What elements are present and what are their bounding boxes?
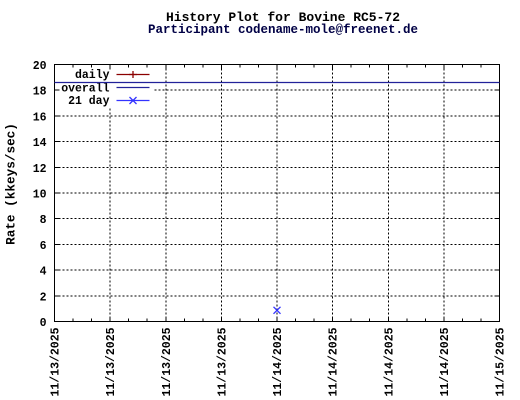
x minor tick bottom 0.2 bbox=[91, 319, 93, 322]
x minor tick bottom 7.2 bbox=[480, 319, 482, 322]
svg-text:daily: daily bbox=[75, 69, 110, 82]
y tick right 6 bbox=[495, 243, 500, 245]
x minor tick top 6.2 bbox=[424, 65, 426, 68]
y tick right 2 bbox=[495, 295, 500, 297]
svg-text:8: 8 bbox=[40, 214, 47, 227]
y tick left 4 bbox=[55, 269, 60, 271]
x major tick top 1 bbox=[109, 65, 111, 70]
x major tick top 3 bbox=[220, 65, 222, 70]
horizontal gridline y=16 bbox=[55, 115, 500, 117]
x minor tick bottom 4.1 bbox=[295, 319, 297, 322]
svg-text:11/14/2025: 11/14/2025 bbox=[383, 327, 396, 396]
legend daily plus marker bbox=[129, 71, 137, 78]
y tick left 12 bbox=[55, 166, 60, 168]
x major tick top 0 bbox=[54, 65, 56, 70]
svg-text:4: 4 bbox=[40, 266, 47, 279]
y tick right 16 bbox=[495, 115, 500, 117]
x minor tick bottom 5.2 bbox=[369, 319, 371, 322]
x minor tick top 5.1 bbox=[350, 65, 352, 68]
y tick right 10 bbox=[495, 192, 500, 194]
x minor tick top 0.2 bbox=[91, 65, 93, 68]
x minor tick top 7.1 bbox=[461, 65, 463, 68]
x minor tick top 6.1 bbox=[406, 65, 408, 68]
x minor tick bottom 3.2 bbox=[257, 319, 259, 322]
x minor tick bottom 4.2 bbox=[313, 319, 315, 322]
svg-text:14: 14 bbox=[33, 137, 47, 150]
horizontal gridline y=12 bbox=[55, 166, 500, 168]
horizontal gridline y=18 bbox=[55, 89, 500, 91]
vertical gridline x tick 1 bbox=[109, 65, 111, 322]
svg-text:21 day: 21 day bbox=[68, 95, 110, 108]
svg-text:Rate (kkeys/sec): Rate (kkeys/sec) bbox=[4, 123, 19, 245]
svg-text:20: 20 bbox=[33, 60, 47, 73]
x minor tick top 3.1 bbox=[239, 65, 241, 68]
legend daily sample line bbox=[117, 74, 150, 76]
x minor tick top 1.1 bbox=[128, 65, 130, 68]
x minor tick bottom 7.1 bbox=[461, 319, 463, 322]
vertical gridline x tick 4 bbox=[276, 65, 278, 322]
y tick left 8 bbox=[55, 218, 60, 220]
y tick right 20 bbox=[495, 64, 500, 66]
horizontal gridline y=6 bbox=[55, 243, 500, 245]
svg-text:16: 16 bbox=[33, 111, 47, 124]
svg-text:0: 0 bbox=[40, 317, 47, 330]
vertical gridline x tick 7 bbox=[443, 65, 445, 322]
x major tick bottom 6 bbox=[387, 317, 389, 322]
svg-text:11/14/2025: 11/14/2025 bbox=[272, 327, 285, 396]
x minor tick top 4.2 bbox=[313, 65, 315, 68]
y tick left 20 bbox=[55, 64, 60, 66]
x minor tick bottom 3.1 bbox=[239, 319, 241, 322]
legend overall sample line bbox=[117, 87, 150, 89]
x major tick top 8 bbox=[499, 65, 501, 70]
x minor tick bottom 1.2 bbox=[146, 319, 148, 322]
y tick right 0 bbox=[495, 321, 500, 323]
svg-text:6: 6 bbox=[40, 240, 47, 253]
y tick right 12 bbox=[495, 166, 500, 168]
y tick right 4 bbox=[495, 269, 500, 271]
vertical gridline x tick 3 bbox=[220, 65, 222, 322]
x major tick bottom 0 bbox=[54, 317, 56, 322]
y tick left 18 bbox=[55, 89, 60, 91]
y tick left 0 bbox=[55, 321, 60, 323]
y tick right 8 bbox=[495, 218, 500, 220]
x minor tick bottom 0.1 bbox=[72, 319, 74, 322]
x major tick bottom 7 bbox=[443, 317, 445, 322]
y tick left 10 bbox=[55, 192, 60, 194]
x major tick bottom 2 bbox=[165, 317, 167, 322]
plot border bbox=[55, 65, 500, 322]
x major tick top 4 bbox=[276, 65, 278, 70]
x minor tick top 7.2 bbox=[480, 65, 482, 68]
x minor tick bottom 6.2 bbox=[424, 319, 426, 322]
x major tick top 5 bbox=[332, 65, 334, 70]
svg-text:10: 10 bbox=[33, 189, 47, 202]
svg-text:2: 2 bbox=[40, 291, 47, 304]
horizontal gridline y=4 bbox=[55, 269, 500, 271]
x major tick bottom 5 bbox=[332, 317, 334, 322]
vertical gridline x tick 2 bbox=[165, 65, 167, 322]
legend 21 day cross marker bbox=[130, 97, 137, 104]
svg-text:18: 18 bbox=[33, 86, 47, 99]
svg-text:11/13/2025: 11/13/2025 bbox=[50, 327, 63, 396]
x major tick bottom 1 bbox=[109, 317, 111, 322]
21 day data point cross bbox=[274, 307, 281, 314]
vertical gridline x tick 5 bbox=[332, 65, 334, 322]
horizontal gridline y=10 bbox=[55, 192, 500, 194]
x major tick top 6 bbox=[387, 65, 389, 70]
x major tick bottom 3 bbox=[220, 317, 222, 322]
x major tick top 2 bbox=[165, 65, 167, 70]
svg-text:11/14/2025: 11/14/2025 bbox=[439, 327, 452, 396]
svg-text:11/14/2025: 11/14/2025 bbox=[328, 327, 341, 396]
x minor tick top 5.2 bbox=[369, 65, 371, 68]
y tick left 2 bbox=[55, 295, 60, 297]
svg-text:Participant codename-mole@free: Participant codename-mole@freenet.de bbox=[148, 23, 418, 37]
x minor tick bottom 6.1 bbox=[406, 319, 408, 322]
svg-text:11/15/2025: 11/15/2025 bbox=[495, 327, 508, 396]
overall series line bbox=[55, 82, 500, 84]
x major tick top 7 bbox=[443, 65, 445, 70]
x minor tick bottom 1.1 bbox=[128, 319, 130, 322]
x minor tick top 3.2 bbox=[257, 65, 259, 68]
x minor tick top 1.2 bbox=[146, 65, 148, 68]
svg-text:11/13/2025: 11/13/2025 bbox=[105, 327, 118, 396]
y tick right 14 bbox=[495, 141, 500, 143]
legend opaque background bbox=[56, 65, 154, 108]
y tick left 16 bbox=[55, 115, 60, 117]
svg-text:12: 12 bbox=[33, 163, 47, 176]
vertical gridline x tick 6 bbox=[387, 65, 389, 322]
horizontal gridline y=14 bbox=[55, 141, 500, 143]
y tick right 18 bbox=[495, 89, 500, 91]
x minor tick bottom 5.1 bbox=[350, 319, 352, 322]
horizontal gridline y=2 bbox=[55, 295, 500, 297]
x minor tick top 4.1 bbox=[295, 65, 297, 68]
x minor tick top 2.1 bbox=[183, 65, 185, 68]
legend 21 day sample line bbox=[117, 100, 150, 102]
x minor tick bottom 2.1 bbox=[183, 319, 185, 322]
y tick left 14 bbox=[55, 141, 60, 143]
svg-text:overall: overall bbox=[61, 83, 109, 96]
x minor tick top 2.2 bbox=[202, 65, 204, 68]
x major tick bottom 8 bbox=[499, 317, 501, 322]
horizontal gridline y=8 bbox=[55, 218, 500, 220]
svg-text:11/13/2025: 11/13/2025 bbox=[216, 327, 229, 396]
svg-text:11/13/2025: 11/13/2025 bbox=[161, 327, 174, 396]
x minor tick top 0.1 bbox=[72, 65, 74, 68]
x major tick bottom 4 bbox=[276, 317, 278, 322]
x minor tick bottom 2.2 bbox=[202, 319, 204, 322]
y tick left 6 bbox=[55, 243, 60, 245]
